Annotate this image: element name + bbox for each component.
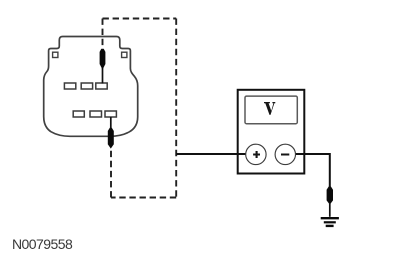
probe P1 lead into row1 pin3: [102, 66, 104, 84]
connector cavity row1 pin2: [81, 83, 92, 89]
voltmeter + terminal circle: [246, 144, 266, 164]
wire: dashed lead junction to voltmeter + terminal: [176, 153, 246, 155]
probe P1 (top test probe): [100, 49, 106, 70]
connector cavity row2 pin1: [73, 111, 84, 117]
connector C1 body outline: [44, 37, 138, 137]
connector index square right: [122, 52, 127, 57]
connector index square left: [53, 52, 58, 57]
voltmeter V1 case: [238, 90, 305, 174]
wire: voltmeter - terminal to ground drop: [295, 154, 329, 188]
meter lead routing dashed: top edge: [103, 18, 177, 20]
ground symbol bar 3: [326, 225, 334, 227]
meter lead routing dashed: bottom edge: [111, 197, 176, 199]
voltmeter display window: [245, 96, 297, 124]
connector cavity row1 pin3: [96, 83, 107, 89]
connector cavity row2 pin3: [105, 111, 116, 117]
voltmeter display letter V: [264, 102, 275, 115]
probe P2 (bottom test probe): [108, 128, 114, 149]
connector cavity row2 pin2: [90, 111, 102, 117]
meter lead routing dashed: right edge: [175, 19, 177, 198]
ground symbol bar 1: [321, 217, 339, 219]
probe P2 lead from row2 pin3: [110, 117, 112, 132]
voltmeter - symbol: [281, 154, 289, 156]
meter lead routing dashed: rise to probe P2: [110, 150, 112, 198]
probe P3 (ground probe): [327, 187, 333, 205]
ground symbol bar 2: [324, 221, 336, 223]
meter lead routing dashed: top-left drop to probe P1: [102, 19, 104, 47]
ground lead: [329, 203, 331, 217]
voltmeter - terminal circle: [275, 144, 295, 164]
figure number label N0079558: [12, 236, 72, 252]
connector cavity row1 pin1: [64, 83, 75, 89]
voltmeter + symbol: [253, 151, 260, 158]
